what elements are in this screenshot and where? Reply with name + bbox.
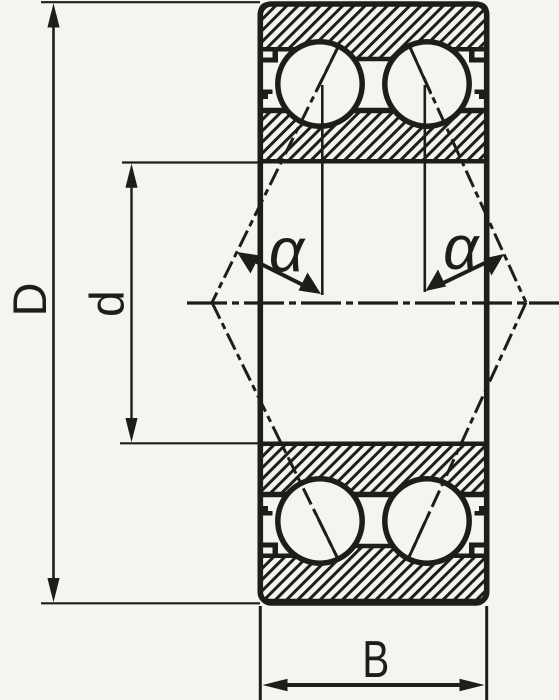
inner ring shoulder line (258, 108, 489, 114)
contact line bottom-left solid core (315, 512, 337, 556)
svg-text:α: α (443, 214, 480, 283)
d extension line top (122, 161, 260, 163)
seal bottom-left outer anchor (261, 543, 278, 559)
inner ring band (hatched) (260, 110, 487, 161)
seal top-left inner anchor (261, 90, 273, 100)
outer ring top band (hatched) (260, 4, 487, 59)
D arrow top (47, 3, 59, 27)
seal top-right outer anchor (469, 47, 486, 63)
contact line bottom-right (409, 303, 526, 558)
bearing upper half: cross-section rings (258, 4, 489, 161)
inner ring bore line (258, 159, 489, 164)
D dimension line (52, 20, 55, 588)
contact line bottom-right solid core (410, 512, 430, 556)
svg-text:α: α (269, 216, 306, 285)
D arrow bottom (47, 578, 59, 602)
contact line bottom-left (212, 303, 337, 558)
inner ring bore line (258, 441, 489, 446)
bearing outline (260, 4, 486, 603)
seal bottom-left inner anchor (261, 506, 273, 516)
svg-text:D: D (3, 283, 56, 317)
svg-text:d: d (82, 290, 135, 317)
ball top-left (278, 42, 362, 126)
seal bottom-right inner anchor (475, 506, 487, 516)
ball axis line right (423, 85, 426, 292)
ball top-right (385, 42, 469, 126)
seal top-left outer anchor (261, 47, 278, 63)
svg-text:B: B (362, 630, 389, 688)
contact line top-left (212, 45, 339, 303)
ball bottom-right (385, 479, 469, 563)
B arrow right (460, 679, 485, 691)
D extension line top (41, 1, 260, 3)
ball bottom-left (278, 479, 362, 563)
outer ring bottom band (hatched) (260, 546, 487, 601)
centerline (187, 301, 559, 304)
seal bottom-right outer anchor (469, 543, 486, 559)
D extension line bottom (41, 602, 260, 604)
alpha arrow right (426, 254, 505, 291)
B arrow left (263, 679, 288, 691)
contact line top-left solid core (317, 45, 339, 90)
alpha arrow left (237, 252, 321, 294)
inner ring band (hatched) (260, 444, 487, 495)
bearing lower half (mirrored) (258, 444, 489, 601)
B extension line left (259, 606, 262, 700)
ball axis line left (321, 85, 324, 295)
d arrow top (125, 164, 137, 188)
contact line top-right solid core (409, 45, 431, 94)
contact line top-right (409, 45, 526, 303)
d extension line bottom (120, 442, 260, 444)
d dimension line (130, 180, 132, 425)
seal top-right inner anchor (475, 90, 487, 100)
d arrow bottom (125, 418, 137, 442)
B dimension line (280, 683, 467, 687)
inner ring shoulder line (258, 492, 489, 498)
B extension line right (485, 606, 488, 700)
